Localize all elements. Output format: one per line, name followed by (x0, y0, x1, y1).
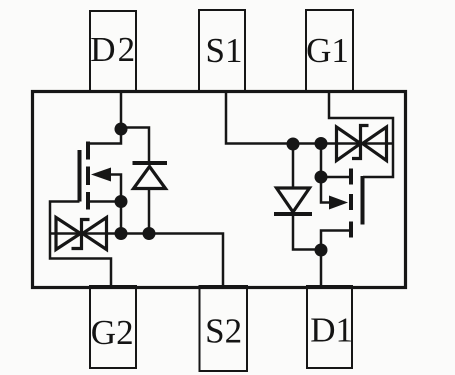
wire S1 pin to TVS line (226, 90, 393, 144)
wire node B to node C (120, 202, 123, 234)
wire gate of Q2 to pin G2 (50, 202, 111, 289)
svg-text:G1: G1 (306, 31, 349, 70)
node C (115, 227, 128, 240)
svg-text:G2: G2 (91, 313, 134, 352)
pin S1 (199, 10, 245, 92)
node A (115, 123, 128, 136)
node H (315, 244, 328, 257)
wire gate of Q1 to pin G1 (329, 90, 393, 177)
wire D2 pin to node A (120, 91, 123, 129)
pin G2 (90, 286, 136, 368)
wire node H to pin D1 (320, 250, 323, 288)
pin S2 (200, 286, 248, 371)
diode D4 (274, 144, 321, 250)
node E (287, 138, 300, 151)
pin D1 (307, 286, 353, 368)
transistor Q1 (321, 169, 363, 250)
node B (115, 195, 128, 208)
wire node A to diode D3 cathode (121, 128, 149, 164)
wire node F to node G (320, 144, 323, 178)
zener Z1 (337, 126, 387, 161)
pin D2 (90, 11, 137, 92)
wire node A to Q2 drain (90, 129, 121, 144)
wire source line to pin S2 (50, 234, 223, 289)
svg-text:D2: D2 (90, 30, 137, 69)
node F (315, 137, 328, 150)
svg-text:S2: S2 (205, 312, 242, 351)
svg-text:S1: S1 (206, 31, 243, 70)
svg-text:D1: D1 (310, 311, 353, 350)
node D (143, 227, 156, 240)
pin G1 (306, 10, 353, 92)
package outline (33, 92, 406, 288)
node G (315, 171, 328, 184)
zener Z2 (56, 218, 107, 250)
transistor Q2 (80, 142, 122, 210)
diode D3 (133, 163, 168, 234)
